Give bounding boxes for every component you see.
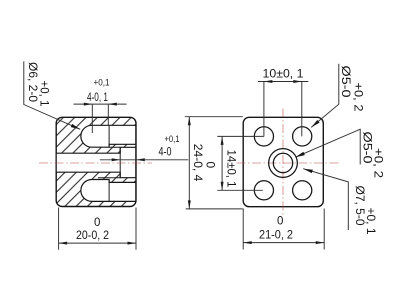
svg-text:+0, 2: +0, 2 [372,148,386,178]
dim 20-0,2 below left view [59,208,136,250]
svg-text:10±0, 1: 10±0, 1 [263,69,304,81]
centerline left view (red) [39,162,152,164]
centerlines right view (red) [237,162,339,164]
wire: slot-to-counterbore boundary lines [98,126,120,202]
svg-text:4-0, 1: 4-0, 1 [87,92,108,104]
svg-text:+0, 2: +0, 2 [352,83,366,112]
left view: top slot (counterbore section) [81,125,136,147]
hole top-right [293,127,312,146]
hole bottom-left [254,181,273,200]
svg-text:0: 0 [94,217,100,229]
leader Ø5 top-right [311,64,339,128]
dim 21-0,2 below right view [243,209,324,250]
dim 14±0,1 left of right view [217,136,264,190]
svg-text:14±0, 1: 14±0, 1 [225,150,239,188]
hole top-left [254,127,273,146]
dim 4-0,1 above left view [74,104,127,133]
svg-text:24-0, 4: 24-0, 4 [191,144,205,182]
svg-text:21-0, 2: 21-0, 2 [259,230,293,242]
svg-text:+0, 1: +0, 1 [38,81,52,107]
leader Ø6,2 top-left [24,61,80,129]
svg-text:+0, 1: +0, 1 [364,208,378,235]
hole bottom-right [293,181,312,200]
dim 10±0,1 above right view [258,82,308,137]
center hole inner [273,153,292,172]
svg-text:0: 0 [277,216,283,228]
right view: plate outline [243,117,323,206]
svg-text:4-0: 4-0 [159,147,172,159]
svg-text:20-0, 2: 20-0, 2 [76,230,109,242]
left view: bottom slot (counterbore section) [81,180,136,202]
left view: central hole with right counterbore [56,147,136,177]
svg-text:+0,1: +0,1 [165,134,180,144]
svg-text:Ø5-0: Ø5-0 [339,66,353,98]
svg-text:+0,1: +0,1 [94,78,110,88]
dim 24-0,4 between views [185,117,243,209]
left view: section body with hatching [56,117,136,206]
leader Ø5 middle-right [295,129,360,164]
center hole outer [269,149,298,178]
dim 4-0 right of left view [100,159,189,161]
leader Ø7,5 bottom-right [303,169,348,230]
svg-text:0: 0 [204,162,218,169]
